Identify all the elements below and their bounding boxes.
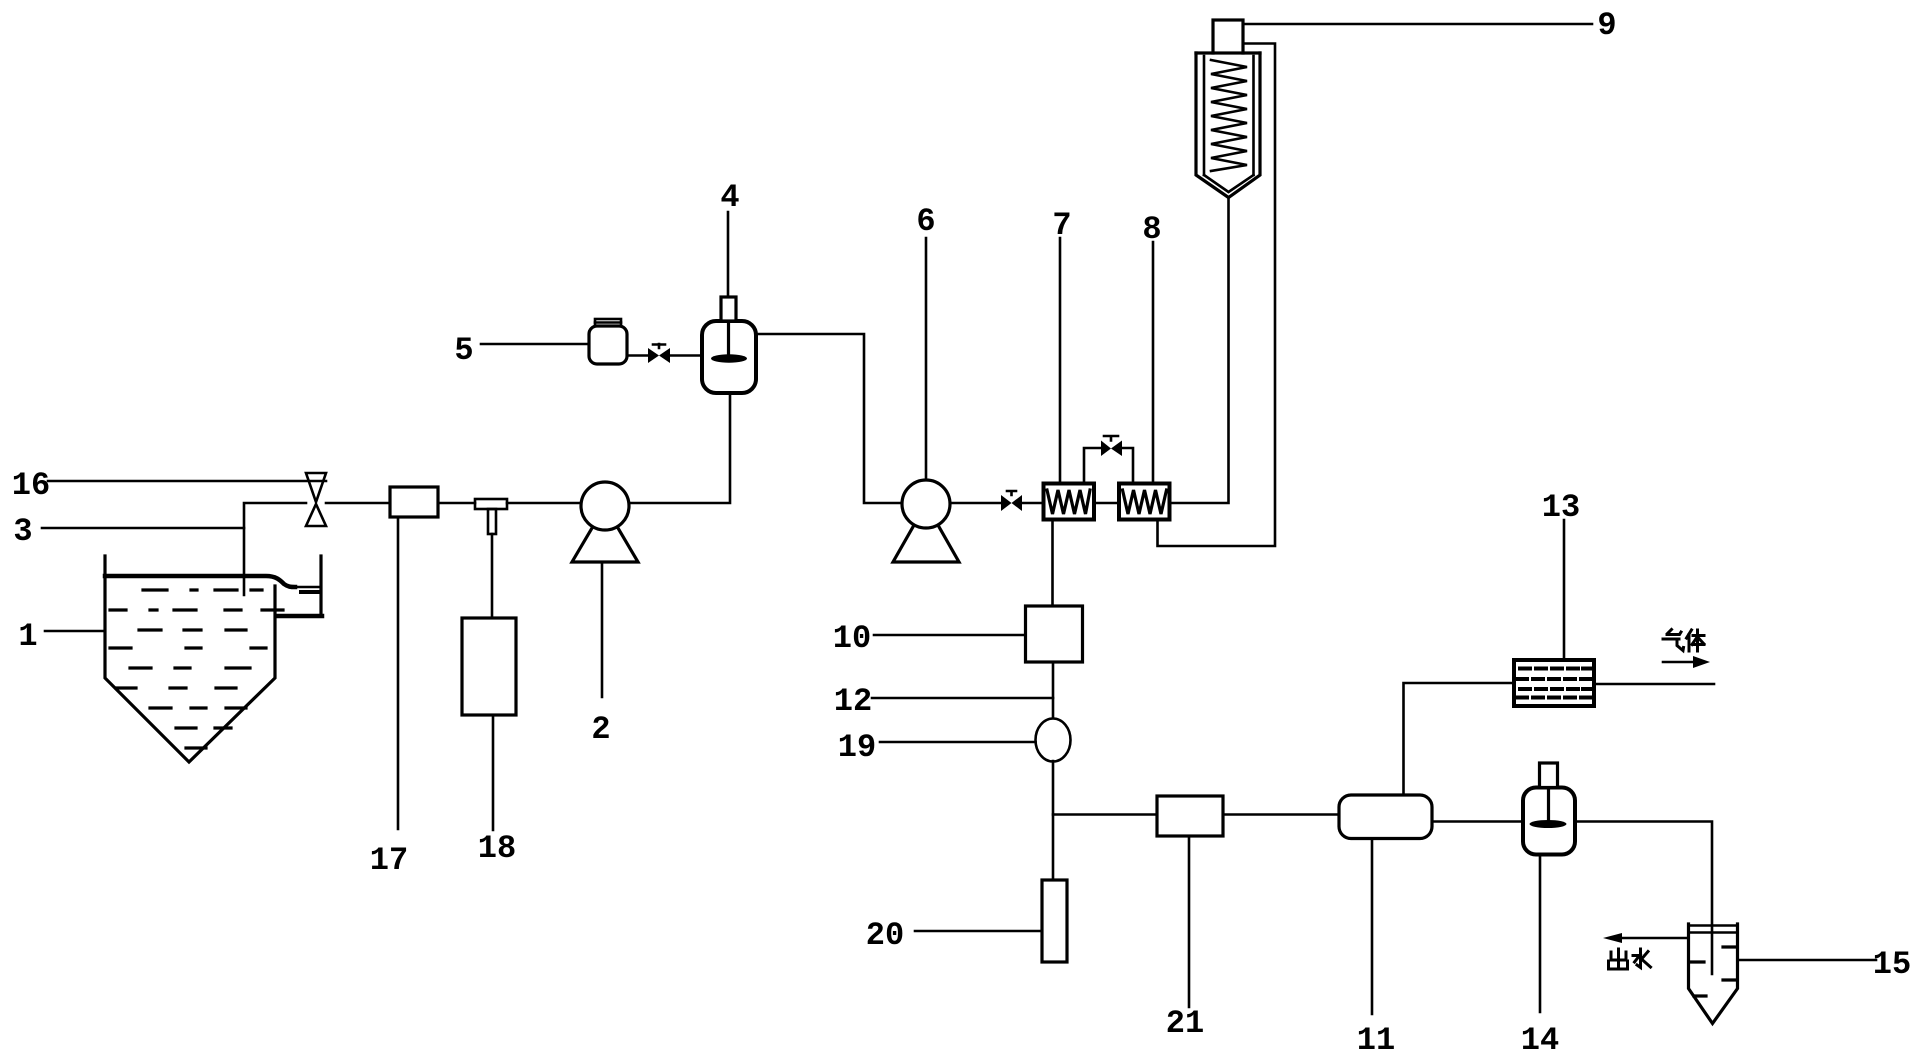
leader 13: [1563, 520, 1566, 660]
wire tee to rect 18: [491, 534, 494, 618]
arrow gas: [1663, 656, 1710, 668]
wire HX8 to column 9: [1170, 198, 1229, 504]
wire pump 6 to valve: [950, 502, 1001, 505]
leader 19: [880, 741, 1036, 744]
leader 11: [1371, 839, 1374, 1015]
wire junction to gauge 20: [1052, 815, 1055, 881]
dosing jar 5: [589, 319, 627, 364]
leader 12: [872, 697, 1053, 700]
svg-text:1: 1: [18, 618, 37, 655]
leader line 17: [397, 517, 400, 829]
box 13: [1514, 660, 1594, 706]
svg-text:2: 2: [591, 711, 610, 748]
vessel 11: [1339, 795, 1432, 839]
wire pump 2 to vessel 4: [629, 393, 730, 503]
svg-text:3: 3: [13, 513, 32, 550]
heat exchanger 7: [1044, 484, 1095, 520]
text qiti gas: [1663, 630, 1704, 652]
wire gas outlet: [1594, 683, 1714, 686]
svg-text:14: 14: [1521, 1022, 1559, 1059]
svg-text:4: 4: [720, 179, 739, 216]
wire tee to pump 2: [507, 502, 581, 505]
svg-text:12: 12: [834, 683, 872, 720]
valve between 5 and 4: [648, 344, 670, 363]
leader 5: [481, 343, 589, 346]
svg-text:16: 16: [12, 467, 50, 504]
gauge 20: [1042, 880, 1067, 962]
pump 6: [893, 480, 959, 562]
wire box 17 to tee: [438, 502, 475, 505]
leader 15: [1740, 959, 1876, 962]
vessel 15: [1689, 924, 1738, 1024]
svg-text:17: 17: [370, 842, 408, 879]
svg-text:18: 18: [478, 830, 516, 867]
wire column 9 return to HX8: [1158, 44, 1276, 547]
svg-text:8: 8: [1142, 211, 1161, 248]
vessel 14 stirred: [1523, 763, 1575, 855]
svg-text:11: 11: [1357, 1022, 1395, 1059]
bypass wire: [1084, 448, 1133, 483]
leader 4: [727, 212, 730, 297]
wire jar to valve: [627, 354, 648, 357]
wire box 10 to circle 19: [1052, 662, 1055, 719]
leader 8: [1152, 242, 1155, 483]
box 17: [390, 487, 438, 517]
pump 2: [572, 482, 638, 562]
circle 19: [1036, 719, 1071, 762]
tee fitting: [475, 499, 507, 534]
wire HX7 to HX8: [1094, 502, 1119, 505]
wire HX7 to box 10: [1051, 520, 1054, 607]
leader line 16: [48, 480, 326, 483]
leader line 1: [45, 630, 105, 633]
text chushui water out: [1609, 949, 1651, 969]
wire below pump 2: [601, 562, 604, 697]
valve before HX 7: [1001, 491, 1022, 511]
sensor 18: [462, 618, 516, 715]
vessel 4 stirred tank: [702, 297, 756, 393]
valve 16: [306, 473, 326, 526]
wire vessel 11 to box 13: [1404, 683, 1515, 795]
box 10: [1026, 606, 1083, 662]
wire below 18: [492, 715, 495, 830]
svg-text:6: 6: [916, 203, 935, 240]
wire 19 to junction and box 21: [1053, 761, 1157, 815]
wire vessel 14 to vessel 15: [1575, 822, 1712, 975]
heat exchanger 8: [1119, 484, 1170, 520]
tank 1 sedimentation tank: [105, 556, 322, 762]
svg-text:19: 19: [838, 729, 876, 766]
wire valve to HX 7: [1022, 502, 1043, 505]
wire suction pipe 3: [244, 503, 306, 595]
svg-text:5: 5: [454, 332, 473, 369]
svg-text:15: 15: [1873, 946, 1911, 983]
svg-text:13: 13: [1542, 489, 1580, 526]
svg-text:21: 21: [1166, 1005, 1204, 1042]
bypass valve: [1101, 436, 1122, 456]
svg-text:10: 10: [833, 620, 871, 657]
leader 7: [1059, 238, 1062, 483]
svg-text:7: 7: [1052, 207, 1071, 244]
svg-text:9: 9: [1597, 7, 1616, 44]
wire box 21 to vessel 11: [1223, 813, 1339, 816]
leader 10: [874, 634, 1025, 637]
leader 14: [1539, 855, 1542, 1013]
leader 20: [915, 930, 1042, 933]
leader 9: [1243, 23, 1592, 26]
wire valve 16 to box 17: [326, 502, 390, 505]
svg-text:20: 20: [866, 917, 904, 954]
box 21: [1157, 796, 1223, 836]
arrow water out: [1603, 933, 1689, 943]
column 9: [1196, 20, 1260, 198]
wire vessel 11 to vessel 14: [1432, 820, 1523, 823]
leader 21: [1188, 836, 1191, 1007]
wire valve to vessel 4: [670, 354, 702, 357]
leader 6: [925, 238, 928, 478]
leader line 3: [42, 527, 244, 530]
wire vessel 4 to pump 6: [756, 334, 902, 503]
